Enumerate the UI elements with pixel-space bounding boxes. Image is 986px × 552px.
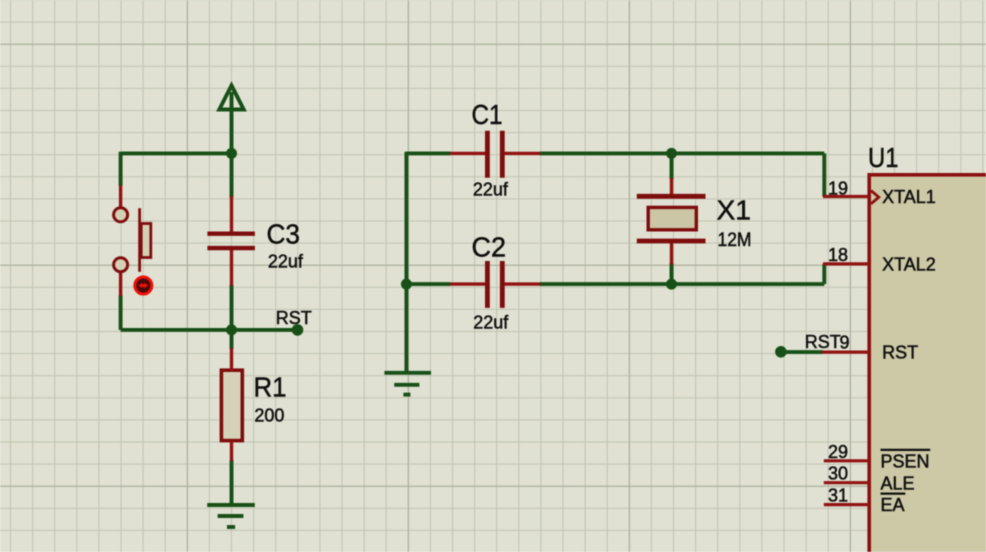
ground under R1 bbox=[207, 505, 255, 527]
svg-text:R1: R1 bbox=[254, 371, 287, 402]
resistor R1 lead bottom bbox=[230, 440, 233, 461]
svg-text:30: 30 bbox=[828, 464, 848, 484]
node RST wire end bbox=[292, 324, 304, 336]
chip U1 bbox=[869, 175, 986, 552]
crystal X1 plates bbox=[637, 196, 706, 241]
button top terminal circle bbox=[114, 208, 128, 222]
svg-text:EA: EA bbox=[881, 495, 905, 515]
wire C2 right to chip column bbox=[540, 282, 825, 286]
XTAL1 clock arrow bbox=[871, 191, 879, 204]
svg-text:XTAL1: XTAL1 bbox=[882, 187, 936, 207]
wire left column of C1/C2 bbox=[404, 152, 408, 372]
button top lead bbox=[119, 186, 122, 207]
node RST chip wire end bbox=[775, 346, 787, 358]
svg-text:22uf: 22uf bbox=[268, 252, 304, 272]
junction node crystal bottom bbox=[666, 279, 677, 290]
wire top-left horizontal bbox=[121, 151, 232, 155]
pin 9 RST bbox=[822, 351, 869, 354]
crystal X1 body bbox=[648, 207, 696, 229]
junction node bottom of C3 bbox=[226, 324, 237, 335]
button interactive marker bbox=[135, 277, 152, 294]
wire C1 right to chip column bbox=[540, 151, 825, 155]
svg-text:U1: U1 bbox=[868, 142, 899, 173]
svg-text:22uf: 22uf bbox=[473, 313, 509, 333]
capacitor C3 lead bottom bbox=[230, 250, 233, 286]
svg-text:31: 31 bbox=[828, 486, 848, 506]
capacitor C3 lead top bbox=[230, 196, 233, 232]
wire crystal bottom horizontal bbox=[406, 282, 450, 286]
wire RST to chip bbox=[781, 350, 823, 354]
button bottom lead bbox=[119, 273, 122, 297]
svg-text:PSEN: PSEN bbox=[881, 451, 930, 471]
button actuator body bbox=[141, 224, 151, 258]
capacitor C1 plates bbox=[487, 131, 502, 178]
capacitor C3 plates bbox=[207, 234, 255, 248]
svg-text:18: 18 bbox=[828, 245, 848, 265]
svg-text:RST: RST bbox=[805, 332, 841, 352]
svg-text:C2: C2 bbox=[472, 232, 507, 263]
svg-text:200: 200 bbox=[254, 406, 284, 426]
crystal X1 stub bottom bbox=[670, 242, 673, 265]
svg-text:RST: RST bbox=[276, 308, 312, 328]
button bottom terminal circle bbox=[114, 258, 128, 272]
pin 31 EA bbox=[824, 503, 869, 506]
svg-text:29: 29 bbox=[828, 442, 848, 462]
power arrow bbox=[219, 85, 243, 109]
pin 19 XTAL1 bbox=[823, 195, 869, 198]
wire crystal top horizontal bbox=[406, 151, 450, 155]
button actuator bar bbox=[138, 208, 141, 272]
svg-text:RST: RST bbox=[882, 343, 918, 363]
wire R1 column bottom bbox=[230, 460, 234, 504]
pin 30 ALE bbox=[824, 481, 869, 484]
wire power column bbox=[230, 92, 234, 198]
svg-text:XTAL2: XTAL2 bbox=[882, 255, 936, 275]
svg-text:22uf: 22uf bbox=[473, 180, 509, 200]
capacitor C2 plates bbox=[487, 261, 502, 308]
wire C3 to bottom node bbox=[230, 285, 234, 330]
junction node left bottom bbox=[401, 279, 412, 290]
wire crystal column bottom bbox=[670, 264, 674, 285]
wire R1 column top bbox=[230, 330, 234, 349]
pin 29 PSEN bbox=[824, 459, 869, 462]
wire left button column lower bbox=[119, 295, 123, 330]
wire to XTAL2 bbox=[822, 264, 826, 284]
wire left button column upper bbox=[119, 152, 123, 186]
svg-text:12M: 12M bbox=[718, 230, 752, 251]
svg-text:C3: C3 bbox=[267, 219, 301, 250]
svg-text:9: 9 bbox=[840, 333, 850, 353]
junction node crystal top bbox=[666, 148, 677, 159]
svg-text:ALE: ALE bbox=[881, 473, 915, 493]
svg-text:X1: X1 bbox=[717, 194, 752, 225]
wire bottom-left horizontal to RST bbox=[121, 328, 298, 332]
wire crystal column top bbox=[670, 153, 674, 179]
ground under C2 column bbox=[384, 373, 431, 395]
wire to XTAL1 bbox=[822, 153, 826, 196]
svg-text:C1: C1 bbox=[472, 99, 503, 130]
resistor R1 body bbox=[221, 370, 242, 440]
junction node top of C3 bbox=[226, 148, 237, 159]
svg-text:19: 19 bbox=[828, 178, 848, 198]
resistor R1 lead top bbox=[230, 348, 233, 371]
capacitor C2 pins bbox=[450, 282, 540, 285]
capacitor C1 pins bbox=[450, 152, 540, 155]
pin 18 XTAL2 bbox=[823, 262, 869, 265]
crystal X1 stub top bbox=[670, 178, 673, 195]
